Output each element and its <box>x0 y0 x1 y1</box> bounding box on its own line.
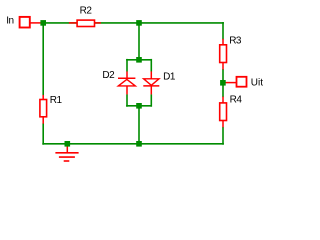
wire bottom rail <box>42 143 224 145</box>
resistor R1 <box>40 95 47 124</box>
node junction ground at bottom rail <box>65 141 71 147</box>
terminal In <box>20 17 44 28</box>
wire diode loop top <box>126 59 152 61</box>
wire loop right leg lower <box>150 94 152 106</box>
resistor R3 <box>220 39 227 70</box>
svg-text:In: In <box>6 16 13 27</box>
ground <box>55 147 78 162</box>
wire R1 to bottom rail <box>42 123 44 144</box>
wire loop right leg upper <box>150 59 152 72</box>
diode D2 <box>118 71 135 94</box>
node junction loop top <box>136 57 142 63</box>
wire diode loop bottom <box>126 105 152 107</box>
wire left branch upper (junction A to R1) <box>42 23 44 95</box>
wire R4 to bottom rail <box>222 127 224 145</box>
wire loop left leg upper <box>126 59 128 72</box>
wire right branch upper (rail to R3) <box>222 22 224 40</box>
resistor R4 <box>220 97 227 128</box>
svg-text:D2: D2 <box>102 70 115 81</box>
svg-text:R2: R2 <box>80 6 93 17</box>
node junction A (In / R1 / top rail) <box>40 20 46 26</box>
node junction C (R3 / R4 / Uit) <box>220 80 226 86</box>
node junction B (top rail / middle branch) <box>136 20 142 26</box>
resistor R2 <box>69 20 101 26</box>
node junction loop bottom <box>136 103 142 109</box>
wire loop left leg lower <box>126 94 128 106</box>
svg-text:R4: R4 <box>230 94 243 105</box>
svg-text:D1: D1 <box>163 72 176 83</box>
wire middle branch lower (loop bottom to rail) <box>138 106 140 144</box>
node junction middle at bottom rail <box>136 141 142 147</box>
wire middle branch upper (junction B to diode loop top) <box>138 23 140 60</box>
wire junction C to R4 <box>222 85 224 98</box>
wire R3 to junction C <box>222 69 224 81</box>
wire top rail <box>43 22 224 24</box>
svg-text:R3: R3 <box>229 36 242 47</box>
diode D1 <box>143 71 159 94</box>
svg-text:Uit: Uit <box>251 78 263 89</box>
svg-text:R1: R1 <box>50 95 63 106</box>
terminal Uit <box>226 77 247 87</box>
